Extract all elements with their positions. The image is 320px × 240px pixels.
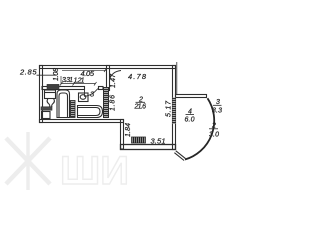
balcony top wall (176, 95, 207, 98)
balcony arc (185, 98, 214, 159)
hall divider wall right (99, 87, 104, 90)
balcony door diagonal (174, 151, 185, 161)
door arc room entrance (110, 71, 122, 80)
washbasin (79, 93, 89, 102)
hatched wall bathroom/room (104, 88, 109, 118)
svg-text:1.86: 1.86 (110, 95, 117, 111)
leader line (37, 74, 57, 76)
svg-text:3.0: 3.0 (209, 132, 219, 139)
svg-text:3: 3 (90, 90, 95, 99)
room left wall upper segment (107, 66, 110, 91)
toilet seat bar (41, 107, 52, 110)
bathtub vertical (57, 90, 70, 118)
svg-text:2.85: 2.85 (19, 68, 37, 77)
entry door bar (47, 84, 59, 88)
room right wall (173, 66, 176, 150)
svg-text:1.84: 1.84 (125, 123, 132, 137)
bathtub horizontal (78, 106, 103, 118)
corner box (42, 112, 51, 119)
svg-text:6.0: 6.0 (185, 117, 195, 124)
radiator (132, 137, 146, 143)
svg-text:1.08: 1.08 (53, 68, 60, 81)
watermark large glyph (6, 132, 50, 190)
extension line (60, 76, 62, 84)
interior hatched partition (71, 101, 76, 118)
left wall (40, 66, 43, 123)
hall divider wall left (42, 87, 85, 90)
svg-text:ШИ: ШИ (60, 149, 129, 193)
svg-text:3.31: 3.31 (62, 77, 73, 84)
extension line above balcony (176, 62, 178, 94)
svg-text:3.3: 3.3 (212, 108, 222, 115)
toilet (45, 90, 56, 107)
top wall (40, 66, 176, 69)
svg-text:21.6: 21.6 (134, 104, 147, 111)
svg-text:1.47: 1.47 (110, 73, 117, 88)
hatched segment right wall (173, 98, 176, 125)
svg-text:3.51: 3.51 (151, 137, 166, 146)
hall dim line (60, 82, 97, 86)
door leaf bathroom (85, 88, 99, 97)
dim line 4.05 (62, 69, 107, 73)
room bottom wall (121, 145, 176, 150)
step wall (121, 120, 124, 150)
svg-text:5.17: 5.17 (166, 100, 173, 117)
bathroom bottom wall (40, 120, 124, 123)
svg-text:4.05: 4.05 (81, 69, 95, 78)
svg-text:4.78: 4.78 (128, 72, 147, 81)
